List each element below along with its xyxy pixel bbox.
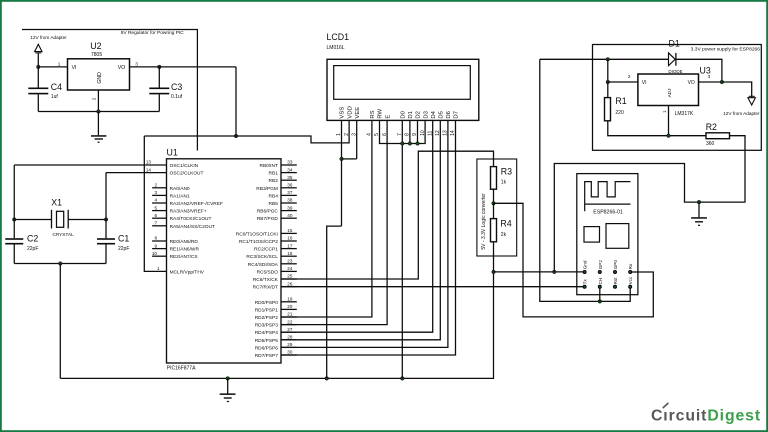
svg-text:CH: CH [598, 278, 603, 285]
diode D1 [669, 53, 676, 66]
wire: LCD VEE down [356, 120, 358, 158]
region outline: 5V regulator section [22, 30, 197, 151]
ESP pin Rx (upper row) [629, 270, 632, 273]
svg-text:D0: D0 [401, 110, 407, 118]
wire: 5V drop to rail [235, 67, 237, 136]
wire: left to crystal [14, 219, 51, 221]
capacitor C3 [149, 88, 169, 90]
wire: supply input horizontal [540, 58, 669, 60]
svg-text:15: 15 [287, 228, 293, 233]
svg-text:C3: C3 [171, 82, 182, 92]
U1 pin 5 RA3/AN3/VREF+ [152, 210, 166, 212]
svg-text:36: 36 [287, 183, 293, 188]
wire: R4 bottom [493, 242, 495, 272]
wire: regulator ground rail [38, 111, 159, 113]
svg-text:RD6/PSP6: RD6/PSP6 [255, 345, 279, 351]
U1 pin 35 RB2 [281, 179, 297, 181]
svg-text:1uf: 1uf [51, 94, 59, 100]
svg-text:14: 14 [146, 167, 152, 172]
node: gnd rail at ground symbol [226, 377, 230, 381]
wire: C4 top to junction [37, 67, 39, 88]
microcontroller U1 PIC16F877A box [167, 159, 282, 363]
regulator U2 box [68, 59, 130, 90]
LCD screen area [334, 66, 471, 100]
svg-text:U1: U1 [167, 148, 178, 158]
U1 pin 19 RD0/PSP0 [281, 301, 297, 303]
wire: VSS to VEE link [342, 158, 357, 160]
wire: crystal right leg to OSC2 (pin 14) [106, 172, 167, 174]
svg-text:220: 220 [615, 110, 624, 116]
svg-text:5: 5 [154, 205, 157, 210]
wire: LCD D7 to PIC RD7 (pin30) [281, 120, 456, 355]
svg-text:Rx: Rx [628, 263, 633, 269]
node: crystal right junction [104, 218, 108, 222]
svg-text:25: 25 [287, 274, 293, 279]
regulator U3 box [638, 74, 699, 106]
node: divider midpoint [492, 202, 496, 206]
svg-text:GP2: GP2 [598, 260, 603, 270]
ground symbol (main rail) [227, 378, 229, 393]
svg-text:34: 34 [287, 167, 293, 172]
svg-text:9: 9 [154, 243, 157, 248]
U3 ADJ pin stub [668, 106, 670, 136]
U1 pin 40 RB7/PGD [281, 217, 297, 219]
svg-text:RC4/SDI/SDA: RC4/SDI/SDA [248, 262, 279, 268]
svg-text:D5: D5 [439, 110, 445, 118]
svg-text:VEE: VEE [355, 107, 361, 119]
svg-text:RB6/PGC: RB6/PGC [257, 209, 279, 215]
U1 pin 38 RB5 [281, 202, 297, 204]
node: gnd link riser junction [553, 270, 557, 274]
wire: LCD D6 to PIC RD6 (pin29) [281, 120, 448, 347]
wire: VI branch down [607, 59, 609, 82]
resistor R1 [605, 98, 611, 121]
svg-text:360: 360 [706, 141, 715, 147]
svg-text:RC7/RX/DT: RC7/RX/DT [253, 285, 278, 291]
svg-text:1: 1 [157, 266, 160, 271]
node: 5V rail T-junction [234, 134, 238, 138]
U1 pin 39 RB6/PGC [281, 210, 297, 212]
svg-text:21: 21 [287, 312, 293, 317]
capacitor C4 [28, 88, 48, 90]
svg-text:RS: RS [370, 110, 376, 118]
wire: crystal caps ground rail [14, 263, 106, 265]
svg-text:37: 37 [287, 190, 293, 195]
wire: VO to 12V arrow [722, 82, 752, 97]
wire: LCD D0 down to ground rail [401, 120, 403, 378]
svg-text:RB3/PGM: RB3/PGM [256, 186, 278, 192]
svg-text:GP0: GP0 [613, 260, 618, 270]
svg-text:Rst: Rst [613, 277, 618, 285]
ESP chip block A [584, 227, 600, 243]
ESP pin Tx (lower row) [583, 285, 586, 288]
svg-text:19: 19 [287, 297, 293, 302]
svg-text:RB1: RB1 [269, 171, 279, 177]
wire: crystal to right [68, 219, 106, 221]
svg-text:1: 1 [662, 110, 667, 113]
power arrow 12V input (up arrow) [35, 44, 42, 51]
svg-text:CırcuitDigest: CırcuitDigest [651, 408, 761, 425]
svg-text:VSS: VSS [340, 107, 346, 119]
wire: 12V arrow stem to node [37, 53, 39, 67]
node: R4 bottom ground node [492, 270, 496, 274]
node: VO junction [720, 80, 724, 84]
svg-text:3: 3 [154, 190, 157, 195]
node: jumper at D2 [416, 142, 420, 146]
svg-text:RD4/PSP4: RD4/PSP4 [255, 330, 279, 336]
wire: divider midpoint to ESP Rx [494, 203, 654, 317]
node: jumper at D0 [401, 142, 405, 146]
svg-text:RC2/CCP1: RC2/CCP1 [254, 247, 278, 253]
svg-text:6: 6 [154, 213, 157, 218]
U1 pin 6 RA4/T0CKI/C1OUT [152, 217, 166, 219]
wire: C3 bottom to gnd rail [158, 94, 160, 111]
wire: LCD RS down to PIC RD2 (pin21) wire [281, 120, 372, 317]
U1 pin 23 RC4/SDI/SDA [281, 263, 297, 265]
ground symbol (5V regulator) [97, 112, 99, 136]
resistor R4 [491, 219, 497, 242]
svg-text:R3: R3 [501, 166, 512, 176]
svg-text:RA3/AN3/VREF+: RA3/AN3/VREF+ [170, 209, 207, 215]
logo accent over i [663, 403, 668, 407]
svg-text:RA4/T0CKI/C1OUT: RA4/T0CKI/C1OUT [170, 216, 212, 222]
svg-text:R4: R4 [500, 218, 511, 228]
svg-text:ESP8266-01: ESP8266-01 [593, 209, 623, 215]
U1 pin 20 RD1/PSP1 [281, 308, 297, 310]
wire: 3.3V feed down to ESP Vcc/CH_PD [540, 59, 630, 301]
svg-text:5V Regulator for Powring PIC: 5V Regulator for Powring PIC [121, 30, 184, 36]
U1 pin 2 RA0/AN0 [152, 187, 166, 189]
svg-text:RD3/PSP3: RD3/PSP3 [255, 323, 279, 329]
svg-text:C2: C2 [27, 234, 38, 244]
wire: LCD D2 down to jumper [417, 120, 419, 143]
wire: C4 bottom to gnd rail [37, 94, 39, 111]
wire: LCD VSS down [341, 120, 343, 226]
wire: to U3 VI pin [608, 81, 638, 83]
U1 pin 18 RC3/SCK/SCL [281, 255, 297, 257]
U1 pin 25 RC6/TX/CK [281, 278, 297, 280]
svg-text:ADJ: ADJ [667, 89, 672, 98]
U1 pin 17 RC2/CCP1 [281, 248, 297, 250]
node: right ground symbol junction [697, 200, 701, 204]
wire: C1 bottom [105, 245, 107, 264]
svg-text:RD5/PSP5: RD5/PSP5 [255, 338, 279, 344]
svg-text:26: 26 [287, 281, 293, 286]
svg-text:R1: R1 [615, 96, 626, 106]
svg-text:33: 33 [287, 160, 293, 165]
region outline: 3.3V power supply box [593, 45, 762, 151]
ESP pin GP2 (upper row) [598, 270, 601, 273]
svg-text:D6: D6 [446, 110, 452, 118]
svg-text:CRYSTAL: CRYSTAL [53, 232, 75, 237]
svg-text:C4: C4 [51, 82, 62, 92]
U1 pin 36 RB3/PGM [281, 187, 297, 189]
svg-text:22pF: 22pF [27, 246, 38, 252]
node: VSS/VEE junction [340, 157, 344, 161]
wire: gnd riser and upper gnd rail to right [554, 136, 745, 272]
wire: OSC1 column down to C2 [13, 165, 15, 238]
node: crystal left junction [12, 218, 16, 222]
svg-text:20: 20 [287, 304, 293, 309]
node: input/diode/VI junction [606, 58, 610, 62]
svg-text:U2: U2 [90, 41, 101, 51]
svg-text:2: 2 [344, 133, 350, 136]
wire: ground link to ESP Gnd pin [494, 271, 583, 273]
U1 pin 4 RA2/AN2/VREF-/CVREF [152, 202, 166, 204]
svg-text:5V - 3.3V Logic converter: 5V - 3.3V Logic converter [481, 193, 487, 250]
svg-text:C1: C1 [118, 234, 129, 244]
svg-text:RB4: RB4 [269, 193, 279, 199]
node: crystal gnd junction [59, 262, 63, 266]
wire: LCD D4 to PIC RD4 (pin27) [281, 120, 433, 332]
svg-text:12V from Adapter: 12V from Adapter [723, 111, 760, 116]
svg-text:RC0/T1OSO/T1CKI: RC0/T1OSO/T1CKI [236, 231, 278, 237]
svg-text:R2: R2 [706, 122, 717, 132]
svg-text:D3: D3 [423, 110, 429, 118]
wire: VSS/VEE drop to ground rail [327, 226, 342, 378]
svg-text:VO: VO [688, 80, 695, 86]
resistor R2 [706, 133, 730, 139]
svg-text:OSC2/CLKOUT: OSC2/CLKOUT [170, 171, 204, 177]
capacitor C1 [97, 238, 115, 240]
region outline: logic level converter box [477, 159, 517, 256]
node: 12V/C4/VI junction [37, 65, 41, 69]
svg-text:VO: VO [118, 65, 126, 71]
svg-text:1: 1 [58, 61, 61, 66]
wire: LCD D5 to PIC RD5 (pin28) [281, 120, 440, 339]
svg-text:7: 7 [154, 221, 157, 226]
U1 pin 30 RD7/PSP7 [281, 354, 297, 356]
ESP pin Rst (lower row) [613, 285, 616, 288]
U1 pin 34 RB1 [281, 172, 297, 174]
svg-text:4: 4 [154, 198, 157, 203]
svg-text:D4: D4 [431, 110, 437, 118]
svg-text:38: 38 [287, 198, 293, 203]
wire: 5V rail to PIC area [144, 120, 349, 142]
antenna trace of ESP8266 [585, 182, 631, 212]
wire: divider node to R4 top [493, 203, 495, 218]
svg-text:D1: D1 [408, 111, 414, 119]
power arrow 12V (down arrow, right) [748, 98, 756, 105]
ESP pin CH (lower row) [598, 285, 601, 288]
U1 pin 33 RB0/INT [281, 164, 297, 166]
U1 pin 15 RC0/T1OSO/T1CKI [281, 232, 297, 234]
svg-text:RB2: RB2 [269, 178, 279, 184]
svg-text:RA1/AN1: RA1/AN1 [170, 193, 190, 199]
svg-text:RE1/AN6/WR: RE1/AN6/WR [170, 247, 200, 253]
wire: LCD RW down to ground jumper [380, 120, 426, 143]
U2 pin 2 stub (GND) [97, 90, 99, 112]
svg-text:22pF: 22pF [118, 246, 129, 252]
svg-text:23: 23 [287, 259, 293, 264]
svg-text:35: 35 [287, 175, 293, 180]
wire: R1 top stub [607, 82, 609, 98]
wire: C3 top [158, 67, 160, 88]
U1 pin 26 RC7/RX/DT [281, 286, 297, 288]
node: C3 top junction on VO wire [158, 65, 162, 69]
wire: PIC RX (pin26) to ESP Tx [281, 286, 583, 288]
svg-text:22: 22 [287, 319, 293, 324]
wire: C2 bottom [13, 245, 15, 264]
node: CH_PD junction on 3.3V rail [598, 300, 602, 304]
svg-text:LM317K: LM317K [675, 111, 694, 117]
svg-text:2k: 2k [501, 232, 507, 238]
U1 pin 37 RB4 [281, 194, 297, 196]
wire: crystal left leg to OSC1 (pin 13) [14, 164, 166, 166]
wire: OSC2 column down to C1 [105, 173, 107, 239]
wire: diode cathode to VO node [676, 59, 722, 82]
svg-text:30: 30 [287, 350, 293, 355]
svg-text:0.1uf: 0.1uf [171, 94, 183, 100]
U1 pin 28 RD5/PSP5 [281, 339, 297, 341]
svg-text:17: 17 [287, 243, 293, 248]
svg-text:RA2/AN2/VREF-/CVREF: RA2/AN2/VREF-/CVREF [170, 201, 223, 207]
svg-text:D2: D2 [416, 111, 422, 119]
svg-text:1k: 1k [501, 180, 507, 186]
svg-text:RD1/PSP1: RD1/PSP1 [255, 307, 279, 313]
ESP8266 module box [577, 174, 638, 295]
svg-text:3: 3 [708, 74, 711, 79]
svg-text:RE2/AN7/CS: RE2/AN7/CS [170, 254, 198, 260]
svg-text:RC5/SDO: RC5/SDO [257, 269, 279, 275]
node: ADJ junction [667, 134, 671, 138]
wire: junction to U2 pin 1 (VI) [38, 66, 67, 68]
svg-text:8: 8 [154, 236, 157, 241]
svg-text:GND: GND [97, 72, 103, 84]
svg-text:3.3V power supply for ESP8266: 3.3V power supply for ESP8266 [691, 47, 761, 53]
svg-text:LCD1: LCD1 [327, 32, 350, 42]
svg-text:10: 10 [152, 251, 158, 256]
svg-text:RA0/AN0: RA0/AN0 [170, 186, 190, 192]
svg-text:2: 2 [154, 183, 157, 188]
svg-text:13: 13 [146, 160, 152, 165]
svg-text:3: 3 [135, 61, 138, 66]
U1 pin 9 RE1/AN6/WR [152, 248, 166, 250]
ESP chip block B [606, 224, 629, 249]
capacitor C2 [5, 238, 23, 240]
svg-text:E: E [385, 115, 391, 119]
svg-text:VI: VI [72, 65, 77, 71]
ESP pin Gnd (upper row) [583, 270, 586, 273]
svg-text:PIC16F877A: PIC16F877A [167, 365, 196, 371]
svg-text:Gnd: Gnd [583, 260, 588, 269]
svg-text:RD0/PSP0: RD0/PSP0 [255, 300, 279, 306]
svg-text:RC1/T1OSI/CCP2: RC1/T1OSI/CCP2 [239, 239, 278, 245]
svg-text:RB0/INT: RB0/INT [259, 163, 277, 169]
wire: PIC TX (pin25) to R3 [281, 151, 494, 279]
wire: U3 VO pin to node [699, 81, 722, 83]
LCD1 LM016L box [327, 59, 479, 120]
wire: main ground rail [60, 272, 493, 379]
svg-text:D1: D1 [669, 38, 680, 48]
ESP pin Vcc (lower row) [629, 285, 632, 288]
svg-text:RW: RW [378, 108, 384, 118]
svg-text:RD2/PSP2: RD2/PSP2 [255, 315, 279, 321]
node: gnd rail at VSS/VEE drop [325, 377, 329, 381]
wire: LCD E down to PIC RD3 (pin22) wire [281, 120, 387, 324]
svg-text:RC3/SCK/SCL: RC3/SCK/SCL [246, 254, 278, 260]
svg-text:16: 16 [287, 236, 293, 241]
svg-text:28: 28 [287, 335, 293, 340]
svg-text:27: 27 [287, 327, 293, 332]
svg-text:OSC1/CLKIN: OSC1/CLKIN [170, 163, 199, 169]
resistor R3 [491, 167, 497, 190]
svg-text:RA5/AN4/SS/C2OUT: RA5/AN4/SS/C2OUT [170, 224, 215, 230]
wire: R3 bottom to divider node [493, 189, 495, 203]
U1 pin 7 RA5/AN4/SS/C2OUT [152, 225, 166, 227]
svg-text:VDD: VDD [347, 106, 353, 118]
wire: R1 bottom to ADJ rail [608, 121, 706, 136]
svg-text:Tx: Tx [583, 279, 588, 285]
svg-text:Vcc: Vcc [628, 276, 633, 284]
U1 pin 24 RC5/SDO [281, 270, 297, 272]
wire: crystal gnd down to main rail [59, 264, 61, 379]
svg-text:D7: D7 [454, 111, 460, 119]
svg-text:RB5: RB5 [269, 201, 279, 207]
svg-text:X1: X1 [51, 198, 62, 208]
wire: CH_PD pin drop [599, 289, 601, 302]
U1 pin 29 RD6/PSP6 [281, 346, 297, 348]
svg-text:RB7/PGD: RB7/PGD [257, 216, 279, 222]
svg-text:2: 2 [91, 97, 96, 100]
U1 pin 10 RE2/AN7/CS [152, 255, 166, 257]
svg-text:40: 40 [287, 213, 293, 218]
wire: LCD D1 down to jumper [409, 120, 411, 143]
ground symbol (ESP section) [698, 202, 700, 217]
svg-text:24: 24 [287, 266, 293, 271]
U1 pin 16 RC1/T1OSI/CCP2 [281, 240, 297, 242]
U1 pin 21 RD2/PSP2 [281, 316, 297, 318]
U1 pin 8 RE0/AN5/RD [152, 240, 166, 242]
crystal X1 [51, 210, 53, 229]
svg-text:MCLR/Vpp/THV: MCLR/Vpp/THV [170, 269, 205, 275]
svg-text:LM016L: LM016L [327, 45, 345, 51]
svg-text:12V from Adapter: 12V from Adapter [30, 35, 67, 40]
svg-text:RE0/AN5/RD: RE0/AN5/RD [170, 239, 199, 245]
svg-text:2: 2 [628, 74, 631, 79]
ESP pin GP0 (upper row) [613, 270, 616, 273]
node: gnd rail at LCD D0 drop [401, 377, 405, 381]
U1 pin 27 RD4/PSP4 [281, 331, 297, 333]
svg-text:7805: 7805 [91, 52, 102, 58]
svg-text:18: 18 [287, 251, 293, 256]
U1 pin 3 RA1/AN1 [152, 194, 166, 196]
svg-text:39: 39 [287, 205, 293, 210]
svg-text:RC6/TX/CK: RC6/TX/CK [253, 277, 279, 283]
node: VI/R1 junction [606, 80, 610, 84]
svg-text:29: 29 [287, 342, 293, 347]
node: gnd rail junction at U2 pin2 [97, 110, 101, 114]
svg-text:VI: VI [642, 80, 647, 86]
node: jumper at D1 [408, 142, 412, 146]
U1 pin 22 RD3/PSP3 [281, 324, 297, 326]
svg-text:RD7/PSP7: RD7/PSP7 [255, 353, 279, 359]
wire: 5V down to MCLR [144, 136, 166, 271]
wire: U2 VO output going right [130, 66, 237, 68]
